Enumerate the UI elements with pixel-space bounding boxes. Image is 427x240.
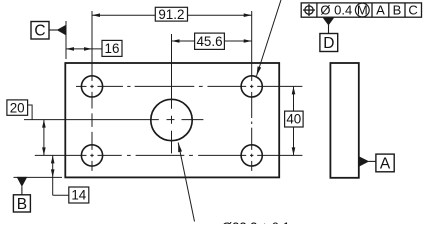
svg-text:Ø 0.4: Ø 0.4 xyxy=(320,3,352,18)
svg-text:14: 14 xyxy=(71,188,86,203)
svg-text:20: 20 xyxy=(10,100,25,115)
svg-text:C: C xyxy=(408,3,417,18)
svg-text:B: B xyxy=(393,3,402,18)
svg-text:16: 16 xyxy=(105,41,120,56)
svg-text:91.2: 91.2 xyxy=(158,7,184,22)
svg-text:A: A xyxy=(376,3,385,18)
svg-text:Ø22.2 ± 0.1: Ø22.2 ± 0.1 xyxy=(222,220,290,225)
svg-text:45.6: 45.6 xyxy=(196,34,222,49)
svg-text:A: A xyxy=(380,155,391,172)
svg-text:D: D xyxy=(323,35,334,52)
svg-text:C: C xyxy=(34,23,45,40)
svg-text:M: M xyxy=(357,2,368,17)
svg-text:B: B xyxy=(17,196,27,213)
svg-text:40: 40 xyxy=(286,112,301,127)
